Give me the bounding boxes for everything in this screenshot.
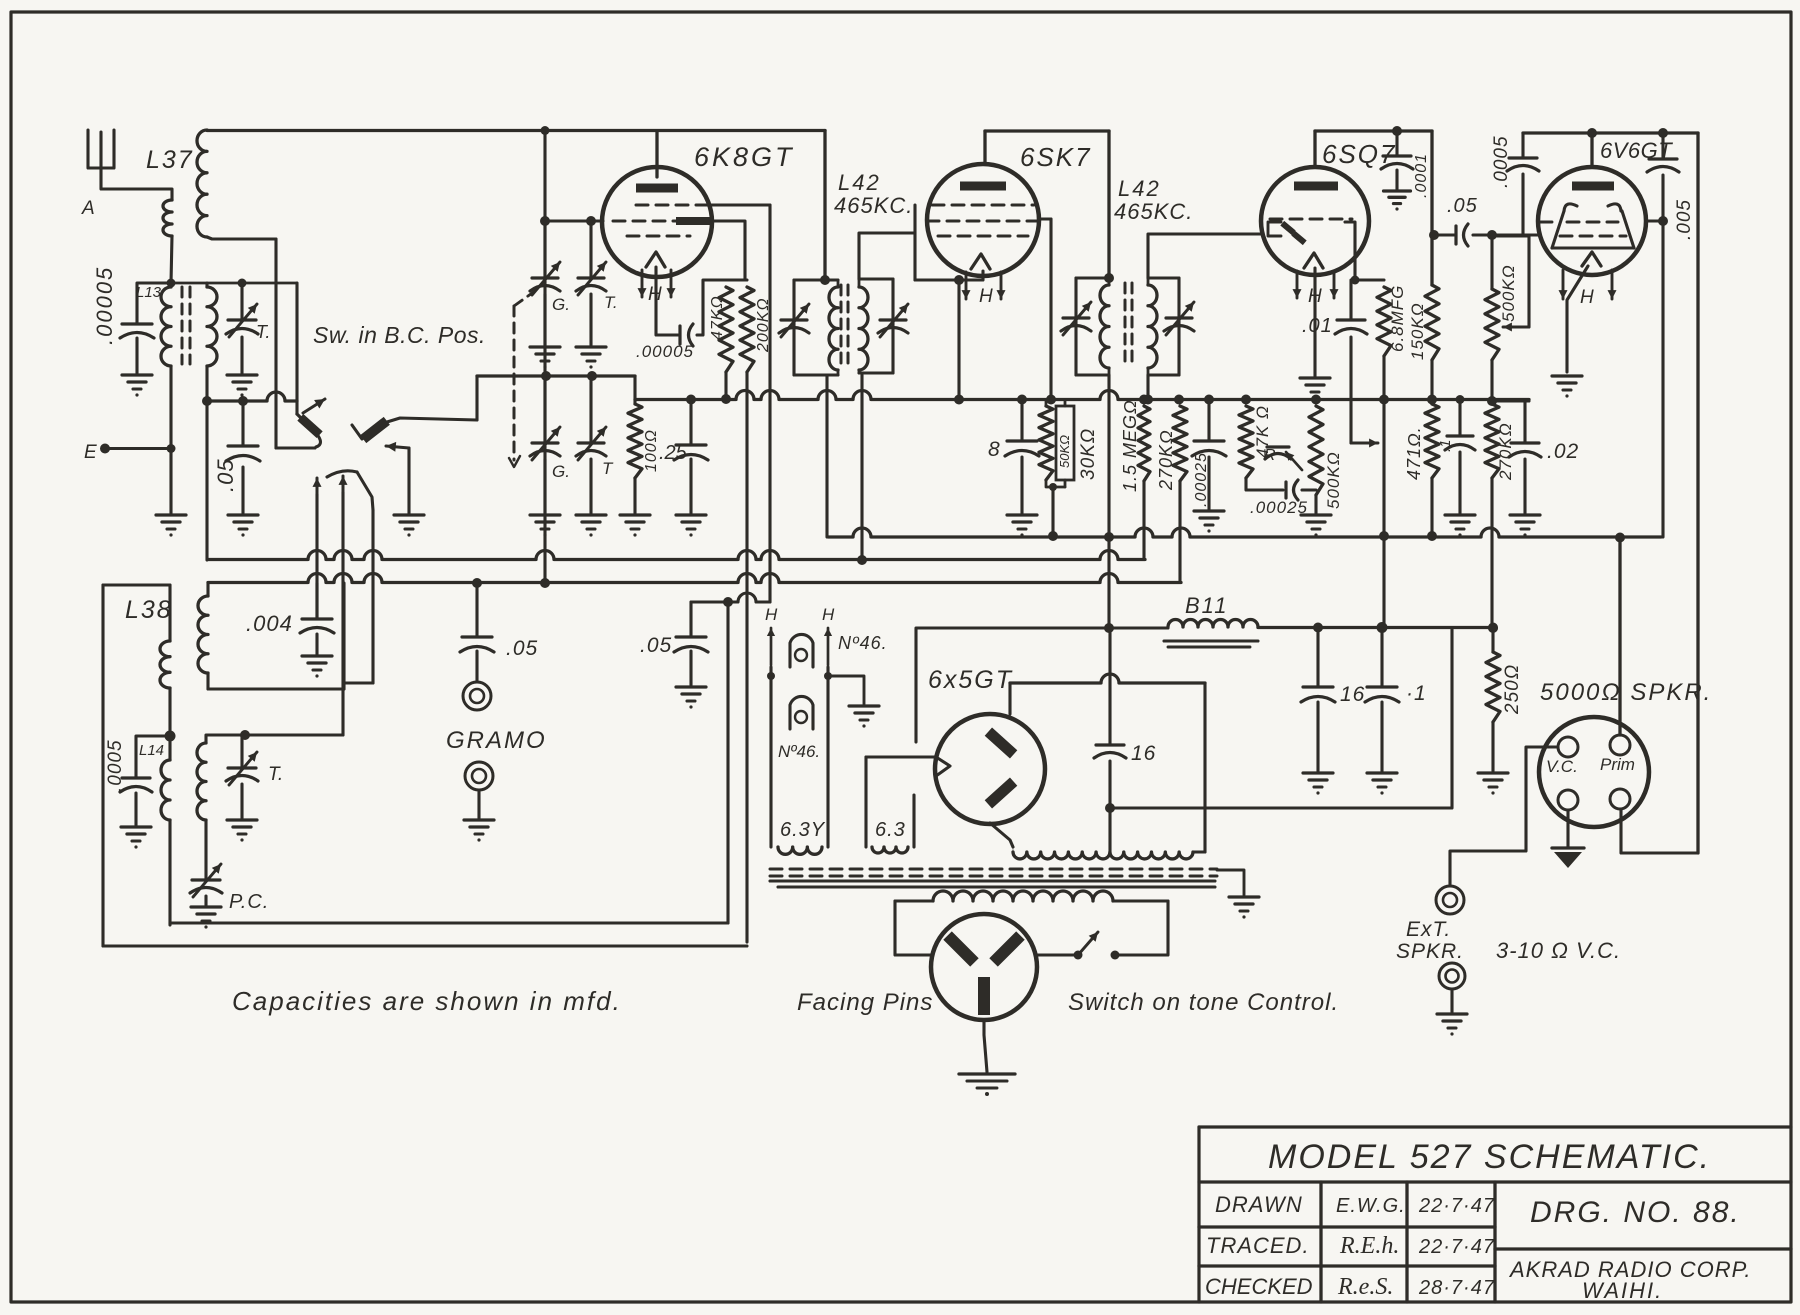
svg-text:.05: .05 — [1447, 195, 1478, 217]
svg-text:SPKR.: SPKR. — [1396, 940, 1464, 963]
svg-text:.0005: .0005 — [105, 739, 126, 792]
svg-text:100Ω: 100Ω — [643, 429, 660, 472]
svg-text:MODEL 527 SCHEMATIC.: MODEL 527 SCHEMATIC. — [1268, 1138, 1711, 1176]
svg-text:Sw. in B.C. Pos.: Sw. in B.C. Pos. — [313, 322, 486, 348]
svg-text:47KΩ: 47KΩ — [709, 295, 726, 340]
svg-text:L42: L42 — [1118, 176, 1161, 201]
svg-text:.004: .004 — [246, 611, 293, 636]
svg-text:50KΩ: 50KΩ — [1057, 435, 1072, 468]
svg-text:R.E.h.: R.E.h. — [1339, 1233, 1399, 1259]
svg-text:P.C.: P.C. — [229, 891, 269, 913]
svg-text:L13: L13 — [136, 284, 162, 301]
svg-text:.0001: .0001 — [1413, 153, 1430, 198]
svg-text:.005: .005 — [1674, 199, 1695, 240]
svg-text:.02: .02 — [1547, 440, 1579, 463]
svg-text:465KC.: 465KC. — [1114, 199, 1193, 224]
svg-text:270KΩ: 270KΩ — [1496, 422, 1515, 481]
svg-text:6.8MFG: 6.8MFG — [1388, 285, 1407, 352]
svg-text:·1: ·1 — [1406, 682, 1427, 705]
svg-text:T.: T. — [268, 764, 283, 785]
svg-text:Facing Pins: Facing Pins — [797, 989, 933, 1016]
svg-text:H: H — [1580, 287, 1594, 308]
svg-text:Nº46.: Nº46. — [838, 633, 888, 653]
svg-text:DRG. NO. 88.: DRG. NO. 88. — [1530, 1196, 1741, 1229]
svg-text:3-10 Ω V.C.: 3-10 Ω V.C. — [1496, 938, 1621, 963]
svg-text:.00005: .00005 — [636, 342, 694, 361]
svg-text:DRAWN: DRAWN — [1215, 1192, 1303, 1217]
svg-text:5000Ω SPKR.: 5000Ω SPKR. — [1540, 679, 1712, 706]
svg-text:22·7·47: 22·7·47 — [1418, 1236, 1495, 1258]
svg-text:E: E — [84, 442, 97, 463]
svg-text:6SK7: 6SK7 — [1020, 142, 1092, 172]
svg-text:250Ω: 250Ω — [1502, 664, 1523, 715]
svg-text:Capacities are shown in mf: Capacities are shown in mfd. — [232, 986, 622, 1016]
svg-text:.05: .05 — [640, 634, 672, 657]
svg-text:8: 8 — [988, 438, 1000, 461]
svg-text:.05: .05 — [213, 458, 238, 492]
svg-text:.01: .01 — [1302, 315, 1333, 337]
svg-text:Switch on tone Control.: Switch on tone Control. — [1068, 989, 1339, 1016]
svg-text:.00025: .00025 — [1250, 498, 1308, 517]
svg-text:270KΩ: 270KΩ — [1156, 429, 1176, 491]
svg-text:GRAMO: GRAMO — [446, 727, 547, 754]
svg-text:471Ω.: 471Ω. — [1404, 426, 1424, 480]
svg-text:500KΩ: 500KΩ — [1324, 451, 1343, 509]
svg-text:E.W.G.: E.W.G. — [1336, 1195, 1406, 1217]
svg-text:R: R — [1264, 447, 1276, 464]
svg-text:L37: L37 — [146, 146, 194, 174]
svg-text:16: 16 — [1340, 683, 1365, 706]
svg-text:T.: T. — [604, 293, 618, 312]
svg-text:Nº46.: Nº46. — [778, 742, 820, 761]
svg-text:6.3Y: 6.3Y — [780, 819, 826, 841]
svg-text:L38: L38 — [125, 596, 173, 624]
svg-text:1.5 MEGΩ: 1.5 MEGΩ — [1120, 399, 1140, 492]
svg-text:WAIHI.: WAIHI. — [1582, 1278, 1663, 1303]
svg-text:H: H — [765, 605, 778, 624]
svg-text:16: 16 — [1131, 742, 1156, 765]
svg-text:T.: T. — [256, 322, 270, 342]
svg-text:28·7·47: 28·7·47 — [1418, 1277, 1495, 1299]
svg-text:22·7·47: 22·7·47 — [1418, 1195, 1495, 1217]
svg-text:.00005: .00005 — [92, 266, 117, 345]
svg-text:ExT.: ExT. — [1406, 918, 1451, 941]
svg-text:H: H — [979, 286, 993, 307]
svg-text:.1: .1 — [1437, 439, 1454, 452]
svg-text:V.C.: V.C. — [1546, 757, 1578, 776]
svg-text:.0005: .0005 — [1491, 135, 1512, 188]
svg-text:6x5GT: 6x5GT — [928, 666, 1013, 694]
svg-text:Prim: Prim — [1600, 755, 1635, 774]
svg-text:L42: L42 — [838, 170, 881, 195]
svg-text:6K8GT: 6K8GT — [694, 142, 795, 172]
svg-text:150KΩ: 150KΩ — [1408, 302, 1427, 360]
svg-text:6.3: 6.3 — [875, 819, 906, 841]
svg-text:L14: L14 — [139, 742, 164, 759]
svg-text:T: T — [602, 459, 614, 478]
svg-text:6SQ7: 6SQ7 — [1322, 139, 1397, 169]
svg-text:.25: .25 — [659, 442, 688, 464]
svg-text:H: H — [822, 605, 835, 624]
svg-text:.00025: .00025 — [1193, 452, 1210, 507]
svg-text:30KΩ: 30KΩ — [1078, 428, 1099, 480]
svg-text:CHECKED: CHECKED — [1205, 1274, 1313, 1299]
svg-text:G.: G. — [552, 295, 570, 314]
svg-text:R.e.S.: R.e.S. — [1337, 1274, 1393, 1300]
svg-text:500KΩ: 500KΩ — [1499, 264, 1518, 322]
svg-text:G.: G. — [552, 462, 570, 481]
svg-text:.05: .05 — [506, 637, 538, 660]
svg-text:A: A — [81, 198, 95, 219]
svg-text:B11: B11 — [1185, 593, 1229, 618]
svg-text:465KC.: 465KC. — [834, 193, 913, 218]
svg-text:TRACED.: TRACED. — [1206, 1233, 1310, 1258]
